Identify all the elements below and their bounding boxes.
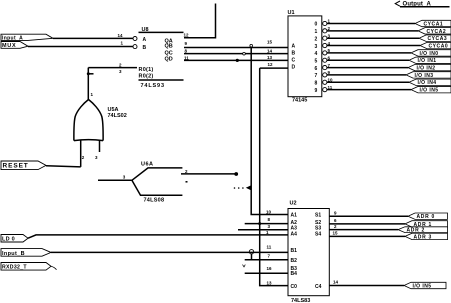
port flag ADR 3 [405,233,448,240]
svg-text:RXD32_T: RXD32_T [2,265,27,271]
svg-text:ADR 0: ADR 0 [417,214,436,220]
port flag CYCA2 [418,28,451,35]
svg-text:U2: U2 [290,201,297,207]
wire U1 D pin [260,67,288,69]
counter U8 74LS93 top edge [139,31,184,33]
svg-text:13: 13 [267,280,273,285]
svg-text:RESET: RESET [3,163,29,170]
svg-text:15: 15 [333,230,339,235]
svg-text:I/O IN5: I/O IN5 [420,88,439,94]
svg-text:U6A: U6A [141,162,154,168]
port flag CYCA0 [420,42,451,49]
U1 output bubble pin 9 [323,73,327,77]
svg-text:CYCA0: CYCA0 [429,43,449,49]
svg-text:ADR 3: ADR 3 [414,234,433,240]
svg-text:5: 5 [315,58,318,64]
svg-text:A: A [143,37,147,43]
counter U8 bottom edge [139,79,184,81]
svg-text:I/O IN4: I/O IN4 [418,80,437,86]
svg-text:S4: S4 [315,232,321,238]
svg-text:CYCA3: CYCA3 [428,36,448,42]
wire U8 QA output going up [184,4,216,38]
port flag Input_A [1,34,53,41]
svg-text:9: 9 [315,88,318,94]
svg-text:I/O IN2: I/O IN2 [417,66,436,72]
wire U1 output 8 to flag [327,81,409,83]
svg-text:12: 12 [268,62,274,67]
svg-text:14: 14 [333,280,339,285]
svg-text:B: B [292,50,296,56]
U1 output bubble pin 7 [323,66,327,70]
U6A upper branch [132,168,183,180]
wire reset net to U8 R0(2) [88,73,93,75]
wire U2 S2 to ADR 1 [329,223,405,225]
svg-text:B4: B4 [291,271,298,277]
svg-text:I/O IN0: I/O IN0 [420,51,439,57]
svg-text:U8: U8 [142,27,149,33]
port flag I/O IN5 [411,86,451,93]
port flag RESET [1,161,46,170]
wire U1 output 1 to flag [327,30,418,32]
svg-text:6: 6 [315,66,318,72]
wire U1 output 9 to flag [327,89,411,91]
port flag I/O IN1 [409,57,451,64]
svg-text:74LS08: 74LS08 [144,197,165,203]
port flag MUX [1,42,28,50]
wire to U2 B4 (dangling) [245,272,288,274]
svg-text:74LS93: 74LS93 [141,83,165,89]
svg-text:74LS83: 74LS83 [291,298,310,303]
port flag CYCA1 [415,20,451,27]
svg-text:14: 14 [118,33,124,38]
wire vertical from QB net down to U2 A1 [251,48,288,215]
U6A output wire [181,173,235,175]
wire U2 C4 to I/O IN5 [329,285,404,287]
svg-text:I/O IN5: I/O IN5 [413,283,432,289]
svg-text:12: 12 [184,32,190,37]
svg-text:0: 0 [315,22,318,28]
adder U2 box [288,209,329,296]
port flag ADR 0 [408,213,448,220]
port flag LD 0 [1,235,28,243]
junction dot on U8 QD wire [236,59,239,62]
wire U2 S1 to ADR 0 [329,215,408,217]
svg-text:S1: S1 [315,213,321,219]
svg-text:LD 0: LD 0 [2,236,15,242]
wire vertical from U1 D down to U2 C0 [260,68,288,286]
svg-text:B: B [143,45,147,51]
U1 output bubble pin 3 [323,36,327,40]
port flag ADR 2 [398,227,448,234]
svg-text:3: 3 [315,44,318,50]
dangling junction dot at U6A output end [234,172,238,176]
wire U1 output 2 to flag [327,37,419,39]
wire U2 S4 to ADR 3 [329,235,405,237]
port flag Input_B [1,249,51,257]
port flag I/O IN0 [411,50,451,57]
svg-text:I/O IN3: I/O IN3 [415,73,434,79]
svg-text:15: 15 [267,40,273,45]
port flag ADR 1 [405,221,448,228]
wire U8 QC to U1 B [184,53,288,55]
port flag I/O IN5 (C4) [404,282,446,289]
svg-text:R0(1): R0(1) [139,67,154,73]
svg-text:Input_B: Input_B [2,251,25,257]
wire Input_A to U8 pin A [53,37,133,39]
svg-text:Input_A: Input_A [2,35,23,41]
wire stub from hook down to U2 B2 wire [251,254,253,260]
U1 output bubble pin 5 [323,51,327,55]
wire LD 0 to U2 A4 [28,235,288,238]
junction bubble where vertical taps U8 QB wire [250,44,253,47]
svg-text:QB: QB [165,43,173,49]
svg-text:B2: B2 [291,258,298,264]
node Output_A arrow glyph [395,1,400,6]
svg-text:14: 14 [267,48,273,53]
svg-text:D: D [292,65,296,71]
wire MUX to U8 pin B [28,46,133,48]
svg-text:7: 7 [315,73,318,79]
wire Input_B to U2 B1 [51,251,288,253]
wire RESET to U5A input [46,166,81,167]
junction dot where vertical meets U2 A2 wire [258,222,261,225]
svg-text:10: 10 [266,210,272,215]
U1 output bubble pin 6 [323,58,327,62]
svg-text:MUX: MUX [2,43,16,49]
port flag I/O IN2 [408,64,451,71]
annotation arrowhead pointing left at vertical wire [246,185,251,190]
wire U1 output 7 to flag [327,74,406,76]
svg-text:16: 16 [267,266,273,271]
wire U8 QB to U1 A [184,47,288,49]
wire U1 output 3 to flag [327,45,420,47]
wire U1 output 0 to flag [327,23,415,25]
U6A input wire [98,179,132,181]
svg-text:I/O IN1: I/O IN1 [418,58,437,64]
svg-text:C0: C0 [291,284,298,290]
svg-text:13: 13 [267,55,273,60]
svg-text:CYCA1: CYCA1 [424,21,444,27]
svg-text:8: 8 [315,81,318,87]
svg-text:ADR 2: ADR 2 [407,228,426,234]
svg-text:CYCA2: CYCA2 [427,29,447,35]
port flag RXD32_T [1,263,57,271]
U8 input bubble B [133,45,137,49]
wire to U2 A3 (dangling) [238,229,288,231]
svg-text:1: 1 [315,29,318,35]
pin number 1 mark (U6A) [186,181,188,183]
wire to U2 B2 (dangling) [245,259,288,261]
U1 output bubble pin 10 [323,80,327,84]
wire reset net to U8 R0(1) [88,67,137,69]
junction bubble on U8 QC wire [243,52,246,55]
svg-text:74LS02: 74LS02 [108,113,127,119]
svg-text:4: 4 [315,51,318,57]
U1 output bubble pin 2 [323,29,327,33]
port flag CYCA3 [419,35,451,42]
svg-text:11: 11 [267,245,272,250]
svg-text:A1: A1 [291,213,298,219]
annotation dots left of vertical wire [234,187,236,189]
wire U1 output 4 to flag [327,52,411,54]
svg-text:B1: B1 [291,248,298,254]
wire U1 output 6 to flag [327,67,408,69]
U1 output bubble pin 11 [323,88,327,92]
svg-text:C4: C4 [315,284,322,290]
nor gate U5A output wire up to reset net [87,68,89,100]
junction hook bubble on Input_B net [249,250,253,254]
wire to U2 A2 (dangling) [245,223,288,225]
junction dot on reset net [87,72,90,75]
U8 input bubble A [133,37,137,41]
svg-text:C: C [292,57,296,63]
port flag I/O IN3 [406,72,451,79]
U5A right input stub [99,141,101,153]
wire U1 output 5 to flag [327,59,409,61]
small v mark near B2 wire start [243,265,246,267]
U6A lower branch [132,180,183,195]
U1 output bubble pin 1 [323,21,327,25]
port flag I/O IN4 [409,79,451,86]
U5A left input stub down to RESET wire [80,140,82,167]
U1 output bubble pin 4 [323,43,327,47]
svg-text:74145: 74145 [292,97,307,103]
wire under Output_A [400,6,450,8]
svg-text:A4: A4 [291,232,298,238]
svg-text:R0(2): R0(2) [139,74,154,80]
wire U8 QD to U1 C [184,59,288,61]
svg-text:U1: U1 [288,10,295,16]
nor gate U5A body (pointing up) [74,100,103,141]
wire U2 S3 to ADR 2 [329,229,398,231]
svg-text:A: A [292,43,296,49]
svg-text:QD: QD [165,57,173,63]
svg-text:2: 2 [315,36,318,42]
decoder U1 box [288,16,322,97]
